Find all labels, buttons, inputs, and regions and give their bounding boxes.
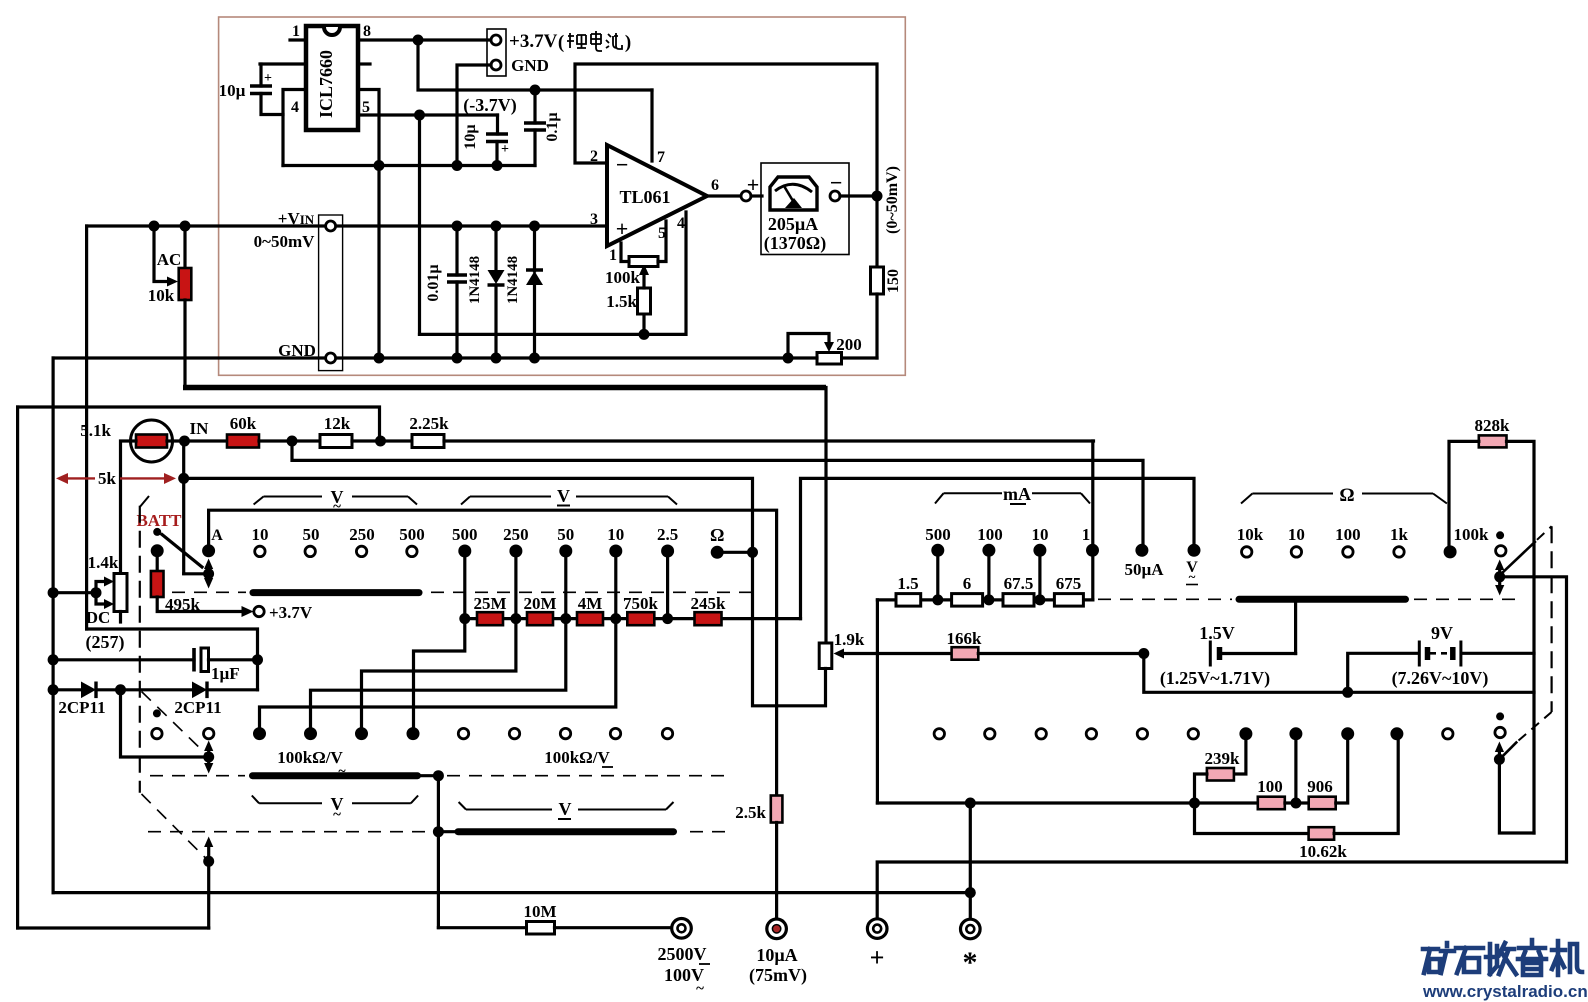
diode 2CP11 b	[121, 688, 193, 691]
svg-text:5k: 5k	[98, 469, 117, 488]
svg-text:828k: 828k	[1475, 416, 1511, 435]
svg-text:6: 6	[963, 574, 972, 593]
svg-text:0.01µ: 0.01µ	[425, 264, 442, 301]
svg-text:+: +	[501, 142, 509, 157]
svg-text:+3.7V: +3.7V	[269, 603, 313, 622]
svg-text:TL061: TL061	[619, 187, 670, 207]
IC U1 ICL7660	[306, 26, 358, 130]
svg-text:AC: AC	[157, 250, 182, 269]
track 3 dashed + bar	[148, 831, 430, 833]
node IN	[179, 436, 190, 447]
blade upper	[1501, 541, 1536, 574]
svg-text:ICL7660: ICL7660	[316, 50, 336, 118]
svg-text:495k: 495k	[165, 595, 201, 614]
svg-text:100kΩ/V: 100kΩ/V	[277, 748, 343, 767]
svg-text:50: 50	[303, 525, 320, 544]
pin 5 output wire (-3.7V)	[358, 113, 498, 116]
svg-text:1.5: 1.5	[897, 574, 918, 593]
meter symbol	[770, 177, 817, 210]
bus y803	[877, 801, 1257, 804]
wiper 2	[203, 752, 214, 763]
chain to V contact riser	[801, 478, 1195, 618]
svg-text:~: ~	[696, 981, 704, 997]
svg-text:(0~50mV): (0~50mV)	[884, 166, 901, 234]
svg-text:+: +	[747, 172, 760, 197]
svg-text:10µA: 10µA	[756, 945, 797, 965]
track 2 dashed + bar	[150, 775, 245, 777]
svg-text:2CP11: 2CP11	[58, 698, 105, 717]
svg-text:+3.7V: +3.7V	[509, 31, 558, 52]
resistor 495k	[156, 551, 159, 571]
diode D2 1N4148	[533, 226, 536, 271]
svg-text:10k: 10k	[1237, 525, 1264, 544]
svg-text:(1.25V~1.71V): (1.25V~1.71V)	[1160, 668, 1270, 689]
resistor 10M	[438, 926, 526, 929]
+VIN wire to pin 3	[87, 224, 607, 227]
svg-text:1.9k: 1.9k	[834, 630, 865, 649]
bracket ohm	[1241, 494, 1252, 504]
resistor 25M	[477, 612, 503, 625]
svg-text:7: 7	[657, 149, 665, 166]
diode 2CP11 a	[53, 688, 81, 691]
svg-text:150: 150	[885, 269, 902, 293]
node -3.7V branch	[414, 110, 425, 121]
svg-text:(75mV): (75mV)	[749, 965, 807, 986]
resistor 12k	[320, 435, 352, 448]
mA contacts	[931, 544, 944, 557]
bracket V~ lower	[252, 796, 259, 804]
svg-text:4: 4	[677, 215, 685, 232]
battery 1.5V	[1209, 641, 1212, 667]
wire y407 tap bus	[18, 407, 380, 441]
row2 ohm contacts	[1239, 727, 1252, 740]
riser 1 contact	[1091, 441, 1094, 600]
svg-text:250: 250	[349, 525, 375, 544]
svg-text:+VIN: +VIN	[278, 209, 315, 228]
+3.7V rail	[413, 35, 424, 46]
shunt chain	[877, 598, 1092, 601]
svg-text:205µA: 205µA	[768, 214, 818, 234]
svg-text:245k: 245k	[691, 594, 727, 613]
svg-text:*: *	[963, 946, 978, 979]
resistor 4M	[577, 612, 603, 625]
svg-text:(7.26V~10V): (7.26V~10V)	[1392, 668, 1489, 689]
thick bus wire	[183, 385, 826, 391]
resistor 239k	[1234, 734, 1246, 774]
resistor 1.5	[896, 594, 921, 607]
svg-text:100kΩ/V: 100kΩ/V	[544, 748, 610, 767]
resistor 2.25k	[412, 435, 444, 448]
divider chain line	[465, 617, 801, 620]
svg-text:50µA: 50µA	[1124, 560, 1164, 579]
row2 contacts	[153, 709, 161, 717]
GND rail upper	[283, 164, 535, 167]
wiper ohm upper	[1494, 571, 1505, 582]
mech link dashed	[139, 506, 141, 793]
node diodes	[115, 684, 126, 695]
svg-text:100: 100	[1335, 525, 1361, 544]
svg-text:1: 1	[609, 247, 617, 264]
blade lower	[1519, 712, 1552, 741]
NC stub	[358, 62, 370, 65]
switch blade BATT	[162, 535, 202, 568]
svg-text:1: 1	[1082, 525, 1091, 544]
svg-text:2CP11: 2CP11	[174, 698, 221, 717]
resistor 906	[1309, 797, 1336, 810]
svg-text:1.4k: 1.4k	[88, 553, 119, 572]
watermark logo	[1423, 940, 1582, 975]
svg-text:~: ~	[333, 499, 341, 515]
GND terminal wire	[457, 65, 491, 166]
svg-text:mA: mA	[1003, 484, 1031, 504]
svg-text:5: 5	[658, 225, 666, 242]
wire bus to 1.9k	[824, 388, 827, 644]
svg-text:200: 200	[836, 335, 862, 354]
op-amp U2 TL061	[607, 145, 707, 246]
svg-text:10k: 10k	[148, 286, 175, 305]
svg-text:8: 8	[363, 23, 371, 40]
resistor 166k	[843, 652, 952, 655]
stair wire C	[311, 619, 566, 728]
resistor 6	[952, 594, 983, 607]
svg-text:1k: 1k	[1390, 525, 1409, 544]
potentiometer AC 10k	[149, 221, 160, 232]
diode D1 1N4148	[494, 226, 497, 270]
stair wire A	[414, 619, 465, 728]
svg-text:(257): (257)	[86, 632, 125, 653]
svg-text:100: 100	[1257, 777, 1283, 796]
svg-text:1: 1	[292, 23, 300, 40]
wire A contact feed	[209, 510, 777, 795]
wire node5k to ohm contact	[178, 473, 189, 484]
svg-text:~: ~	[1189, 569, 1196, 584]
resistor 828k	[1479, 435, 1507, 447]
svg-text:4M: 4M	[578, 594, 603, 613]
svg-text:166k: 166k	[947, 629, 983, 648]
ohm contact wire	[717, 551, 752, 554]
svg-text:www.crystalradio.cn: www.crystalradio.cn	[1422, 982, 1588, 1001]
pin 6 output wire	[707, 194, 741, 197]
node 60k-12k	[287, 436, 298, 447]
svg-text:DC: DC	[86, 608, 111, 627]
svg-text:500: 500	[925, 525, 951, 544]
svg-text:750k: 750k	[623, 594, 659, 613]
svg-text:0~50mV: 0~50mV	[254, 232, 316, 251]
svg-text:(: (	[558, 32, 564, 53]
resistor 750k	[627, 612, 654, 625]
svg-text:BATT: BATT	[136, 511, 182, 530]
ohm contacts	[1242, 547, 1252, 557]
resistor 60k	[185, 439, 228, 442]
stair wire B	[362, 619, 516, 728]
svg-text:12k: 12k	[324, 414, 351, 433]
pin 2 wire	[260, 62, 306, 65]
resistor 100	[1258, 797, 1285, 810]
resistor 245k	[695, 612, 722, 625]
capacitor C1 10u	[250, 84, 272, 88]
svg-text:Ω: Ω	[710, 525, 724, 545]
bracket V~ top	[254, 497, 264, 505]
svg-text:10: 10	[1288, 525, 1305, 544]
resistor 150	[875, 196, 878, 267]
svg-text:100k: 100k	[1454, 525, 1490, 544]
svg-text:10: 10	[252, 525, 269, 544]
row1 contacts	[202, 544, 215, 557]
resistor 67.5	[1003, 594, 1034, 607]
svg-text:GND: GND	[278, 341, 316, 360]
long bus y892	[53, 891, 970, 894]
module border box	[219, 17, 906, 375]
annotation 5k span	[64, 477, 95, 479]
wiper ohm lower	[1494, 754, 1505, 765]
potentiometer 200	[842, 356, 878, 359]
svg-text:0.1µ: 0.1µ	[544, 112, 561, 141]
pin 8 wire	[358, 38, 491, 41]
pin 7 supply riser	[650, 90, 653, 161]
left bus GND branch	[51, 358, 54, 893]
svg-text:2500V: 2500V	[658, 944, 707, 964]
terminal 2500V	[672, 919, 692, 939]
meter bus riser	[876, 600, 879, 803]
potentiometer 100k	[642, 270, 645, 288]
svg-text:A: A	[211, 527, 223, 544]
riser to 10M	[437, 776, 440, 928]
pin 4 step	[283, 90, 306, 166]
svg-text:6: 6	[711, 177, 719, 194]
GND rail bottom	[53, 356, 788, 359]
wiper A	[184, 572, 209, 575]
svg-text:10: 10	[607, 525, 624, 544]
capacitor 0.01u	[447, 273, 467, 277]
divider chain wires down	[463, 551, 466, 619]
row2 mA contacts	[934, 729, 944, 739]
node 12k-2.25k	[375, 436, 386, 447]
capacitor C2 10u	[486, 132, 508, 136]
svg-text:1µF: 1µF	[211, 664, 240, 683]
terminal star	[969, 803, 972, 919]
svg-text:(1370Ω): (1370Ω)	[764, 233, 826, 254]
track ohm deck	[1098, 598, 1232, 600]
pin 1 stub	[290, 38, 306, 41]
battery 9V	[1348, 653, 1417, 692]
mech dashed vertical	[1550, 526, 1552, 712]
svg-text:2.25k: 2.25k	[409, 414, 449, 433]
bracket mA	[935, 493, 944, 503]
svg-text:10.62k: 10.62k	[1299, 842, 1347, 861]
resistor 675	[1054, 594, 1083, 607]
svg-text:10M: 10M	[523, 902, 556, 921]
svg-text:60k: 60k	[230, 414, 257, 433]
bracket V top	[461, 497, 470, 505]
svg-text:V: V	[559, 799, 572, 819]
wire (257) line	[87, 629, 258, 690]
resistor 10.62k	[1195, 803, 1309, 834]
9V node line	[1144, 654, 1534, 693]
svg-text:): )	[625, 32, 631, 53]
pin 2 feedback wire	[575, 64, 877, 196]
bracket V lower	[459, 802, 466, 810]
svg-text:1N4148: 1N4148	[467, 256, 483, 304]
svg-text:V: V	[557, 486, 570, 506]
input connector box	[319, 215, 343, 371]
svg-text:20M: 20M	[523, 594, 556, 613]
svg-text:100k: 100k	[605, 268, 641, 287]
potentiometer 1.9k	[819, 643, 832, 669]
meter M1 205uA box	[761, 163, 849, 255]
stair wire D	[260, 619, 616, 728]
svg-text:+: +	[616, 216, 629, 241]
left bus +VIN branch	[85, 226, 88, 629]
svg-text:GND: GND	[511, 56, 549, 75]
svg-text:+: +	[264, 71, 272, 86]
terminal plus	[877, 862, 1566, 919]
capacitor 1uF	[53, 658, 194, 661]
svg-text:500: 500	[399, 525, 425, 544]
svg-text:250: 250	[503, 525, 529, 544]
svg-text:−: −	[616, 152, 629, 177]
resistor 1.5k	[642, 314, 645, 334]
resistor 20M	[527, 612, 553, 625]
svg-text:906: 906	[1307, 777, 1333, 796]
svg-text:67.5: 67.5	[1004, 574, 1034, 593]
svg-text:100: 100	[977, 525, 1003, 544]
svg-text:9V: 9V	[1431, 623, 1453, 643]
battery terminal box	[487, 29, 506, 76]
-3.7V rail to pin4	[420, 212, 687, 334]
terminal 10uA	[767, 919, 787, 939]
wire DC wiper to GND bus	[53, 591, 96, 594]
svg-text:2.5: 2.5	[657, 525, 678, 544]
svg-text:239k: 239k	[1205, 749, 1241, 768]
svg-text:50: 50	[557, 525, 574, 544]
svg-text:1.5k: 1.5k	[606, 292, 637, 311]
wiper 3	[203, 856, 214, 867]
terminal +3.7V out	[242, 606, 254, 617]
svg-text:1N4148: 1N4148	[505, 256, 521, 304]
svg-text:Ω: Ω	[1339, 485, 1354, 506]
mA contact risers	[936, 550, 939, 600]
wire to 10uA terminal	[775, 823, 778, 920]
svg-text:675: 675	[1056, 574, 1082, 593]
svg-text:1.5V: 1.5V	[1199, 623, 1235, 643]
svg-text:25M: 25M	[473, 594, 506, 613]
svg-text:4: 4	[291, 99, 299, 116]
resistor 2.5k	[771, 796, 783, 823]
svg-text:500: 500	[452, 525, 478, 544]
svg-text:2.5k: 2.5k	[735, 803, 766, 822]
resistor 5.1k in circle	[131, 420, 173, 462]
svg-text:(-3.7V): (-3.7V)	[463, 95, 516, 116]
svg-text:~: ~	[333, 807, 341, 823]
svg-text:10: 10	[1032, 525, 1049, 544]
svg-text:10µ: 10µ	[219, 81, 246, 100]
capacitor C3 0.1u	[524, 121, 546, 125]
svg-text:+: +	[870, 943, 885, 972]
svg-text:IN: IN	[190, 419, 210, 438]
svg-text:10µ: 10µ	[462, 124, 479, 149]
track V~ dashed + bar	[172, 591, 246, 593]
svg-text:5.1k: 5.1k	[80, 421, 111, 440]
pin 5 step / GND riser	[358, 90, 379, 359]
